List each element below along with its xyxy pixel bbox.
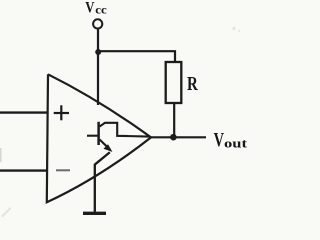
wire: Vcc branch to resistor top [98,51,175,63]
resistor R [166,62,182,103]
collector path [100,123,149,137]
label Vout [214,129,248,151]
transistor Q1 (NPN, open-collector output) [87,122,149,151]
wire: Vcc stem down to op-amp body [97,29,99,105]
wire: non-inverting input lead [0,111,47,113]
label R [187,74,198,95]
ground [83,212,106,215]
scan smudge left edge [0,148,2,162]
emitter with arrow [100,140,111,151]
label Vcc [85,0,107,17]
node: Vcc junction dot [95,49,101,55]
scan smudge bottom-left [1,207,12,218]
op-amp U1 (comparator triangle) [47,74,151,202]
svg-text:cc: cc [95,3,107,17]
non-inverting input + [54,105,69,120]
wire: emitter dogleg to ground stem [95,152,110,212]
node: output junction dot [170,134,177,141]
svg-text:out: out [224,136,248,150]
base bar [97,122,100,145]
Vcc terminal circle [93,19,102,28]
svg-text:R: R [187,74,198,95]
svg-text:V: V [85,0,95,16]
wire: inverting input lead [0,169,47,171]
inverting input - [56,169,70,171]
scan specks top-right [232,27,235,30]
svg-text:V: V [214,129,225,151]
wire: output from op-amp apex to Vout [150,136,206,138]
base lead [87,135,98,137]
wire: resistor bottom lead [173,103,175,137]
